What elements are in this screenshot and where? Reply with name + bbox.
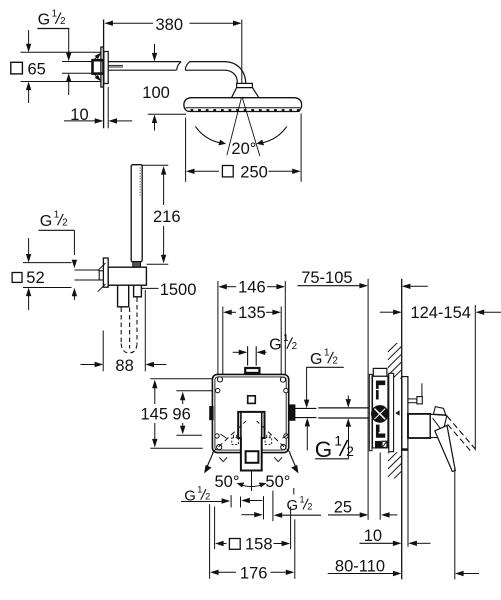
hose connector stub left — [118, 285, 129, 307]
union nut — [93, 60, 104, 73]
leader G1/2 inlet left — [181, 498, 230, 503]
hand shower wand — [131, 165, 142, 262]
holder wall plate — [103, 258, 108, 287]
svg-text:1: 1 — [300, 494, 305, 504]
dimension square 52 — [12, 238, 71, 310]
label G1/2 top-left — [37, 8, 69, 28]
svg-text:1500: 1500 — [160, 281, 197, 299]
svg-text:88: 88 — [115, 357, 133, 375]
holder block — [108, 267, 146, 285]
inlet offset arrow row1 — [241, 498, 262, 503]
handle alternate position dashed — [441, 409, 475, 451]
svg-text:50°: 50° — [265, 473, 290, 491]
svg-text:146: 146 — [238, 279, 266, 297]
mounting bar behind wall — [101, 47, 104, 87]
head mount plate — [237, 83, 253, 87]
svg-text:20°: 20° — [231, 140, 256, 158]
dimension 75-105 — [298, 269, 428, 289]
wall line top-left — [103, 20, 105, 129]
dimension 176 — [210, 504, 295, 582]
lever tip extension line — [454, 468, 456, 579]
handle base — [430, 414, 446, 438]
box screw holes — [215, 377, 288, 450]
svg-text:2: 2 — [60, 16, 65, 27]
diagonal arrows to flange edges — [93, 53, 101, 82]
svg-text:1: 1 — [324, 348, 329, 359]
hole diagonal ticks — [221, 434, 289, 438]
escutcheon flange — [104, 52, 108, 84]
dimension 145 — [141, 379, 213, 449]
dimension 10 bottom — [360, 527, 431, 546]
20 degree cone lines — [227, 98, 260, 156]
svg-text:G: G — [310, 351, 322, 368]
top outlet pipe — [248, 346, 257, 365]
valve body — [373, 376, 388, 448]
short extension right — [293, 488, 295, 495]
svg-text:50°: 50° — [215, 473, 240, 491]
wand lower tip — [133, 262, 141, 268]
leader arrow G1/2 to pipe — [66, 29, 71, 96]
set screw — [408, 383, 422, 404]
valve top bracket — [373, 368, 387, 376]
dimension 25 — [328, 499, 398, 518]
left side plug bar — [210, 407, 213, 420]
function unit — [238, 412, 264, 471]
inlet symbol left — [232, 435, 239, 445]
inlet symbol right — [265, 435, 272, 445]
right outlet stub pipe — [295, 408, 317, 417]
inlet offset arrow row2 — [242, 512, 263, 517]
50 degree indicator lines with arrowheads — [204, 453, 298, 474]
head rim line — [186, 107, 301, 109]
svg-text:145: 145 — [141, 406, 169, 424]
svg-text:G: G — [269, 337, 281, 354]
svg-text:2: 2 — [346, 444, 354, 459]
valve spout body — [408, 414, 430, 438]
svg-text:100: 100 — [142, 84, 170, 102]
valve internal dark parts — [375, 381, 387, 448]
svg-text:1: 1 — [334, 433, 342, 448]
label G1/2 hand shower — [39, 210, 75, 231]
dimension 216 — [142, 165, 180, 264]
dimension 124-154 — [380, 304, 501, 322]
dimension 100 — [142, 44, 170, 131]
unit center line below — [251, 471, 253, 492]
function unit window — [246, 451, 259, 463]
arm inner lines at flange — [108, 65, 123, 67]
plate break marks — [98, 263, 106, 292]
dimension square 65 — [11, 30, 101, 103]
50 degree angle arc — [237, 483, 267, 488]
svg-text:1: 1 — [52, 8, 57, 19]
svg-text:1: 1 — [283, 333, 288, 344]
rough-in box inner line — [215, 377, 286, 450]
dimension 380 — [104, 16, 242, 86]
shower arm tube — [108, 62, 245, 84]
top outlet collar — [245, 368, 259, 373]
svg-text:124-154: 124-154 — [410, 304, 471, 322]
section triangle mark — [395, 410, 399, 415]
tick inlet B — [240, 497, 242, 508]
handle lever blade — [435, 426, 456, 472]
svg-text:216: 216 — [153, 208, 181, 226]
holder supply pipe — [75, 270, 105, 280]
dimension square 158 — [215, 506, 291, 553]
escutcheon front extension line — [107, 87, 109, 128]
tick inlet C — [263, 496, 265, 519]
head bottom reference line — [148, 113, 186, 115]
dimension 135 — [223, 304, 281, 374]
supply pipe behind wall — [62, 62, 92, 74]
dimension 80-110 — [328, 557, 479, 576]
box center square — [248, 396, 256, 404]
svg-text:G: G — [287, 498, 299, 514]
valve cartridge circle — [371, 406, 388, 423]
head mount cone — [232, 88, 259, 98]
svg-text:176: 176 — [240, 564, 268, 582]
label G1/2 mid upper — [306, 348, 344, 368]
dimension 96 — [172, 391, 212, 435]
dimension 10 wall to flange — [64, 106, 132, 124]
handle max extension line — [474, 305, 476, 450]
svg-text:380: 380 — [156, 16, 184, 34]
svg-text:2: 2 — [62, 217, 67, 228]
svg-text:G: G — [38, 12, 50, 29]
label G1/2 mid lower — [315, 433, 354, 462]
svg-text:25: 25 — [334, 499, 352, 517]
svg-text:65: 65 — [28, 60, 46, 78]
svg-text:80-110: 80-110 — [335, 557, 385, 575]
tick inlet A — [230, 495, 232, 507]
leader G1/2 inlet right — [274, 513, 321, 518]
chevron marks below box — [219, 457, 282, 461]
svg-text:75-105: 75-105 — [301, 269, 352, 287]
leader 1500 — [142, 287, 159, 289]
valve back plate — [369, 374, 372, 450]
shower hose dashed — [121, 298, 137, 353]
rough-in box outer — [212, 374, 288, 452]
escutcheon bottom edge — [402, 448, 408, 450]
leader to side inlet stub — [346, 396, 351, 459]
svg-text:G: G — [40, 213, 52, 230]
wall face line — [401, 279, 403, 580]
leader arrow to holder connection — [72, 230, 77, 300]
right side outlet bar — [289, 405, 295, 420]
svg-text:135: 135 — [238, 304, 266, 322]
spray nozzles — [191, 109, 300, 112]
handle cap — [433, 407, 445, 415]
svg-text:2: 2 — [292, 341, 297, 352]
mounting rail — [389, 373, 394, 451]
hose connector stub right — [134, 285, 142, 297]
svg-text:2: 2 — [333, 355, 338, 366]
svg-text:52: 52 — [26, 269, 44, 287]
svg-text:250: 250 — [240, 164, 268, 182]
G1/2 outlet width arrows — [233, 350, 267, 355]
dimension square 250 — [186, 114, 302, 182]
svg-text:G: G — [315, 437, 332, 462]
dimension 88 — [81, 290, 167, 375]
svg-text:1: 1 — [54, 210, 59, 221]
handle base crease — [433, 418, 445, 433]
svg-text:96: 96 — [172, 406, 190, 424]
20 degree curved arrows — [195, 126, 286, 145]
escutcheon side — [402, 377, 408, 451]
svg-text:1: 1 — [197, 485, 202, 495]
wand spray strip — [139, 168, 141, 198]
supply pipe side view — [318, 408, 369, 418]
min depth line — [367, 279, 369, 520]
tick inlet D — [272, 491, 274, 522]
svg-text:10: 10 — [364, 527, 382, 545]
svg-text:158: 158 — [245, 536, 273, 554]
svg-text:2: 2 — [307, 501, 312, 511]
svg-text:2: 2 — [205, 492, 210, 502]
leader to front outlet stub — [304, 367, 310, 450]
front depth extension line — [379, 453, 381, 520]
escutcheon front extension — [407, 450, 409, 547]
swing range dashed rays — [212, 421, 290, 453]
shower head body — [184, 98, 302, 112]
dimension 146 — [218, 279, 285, 375]
